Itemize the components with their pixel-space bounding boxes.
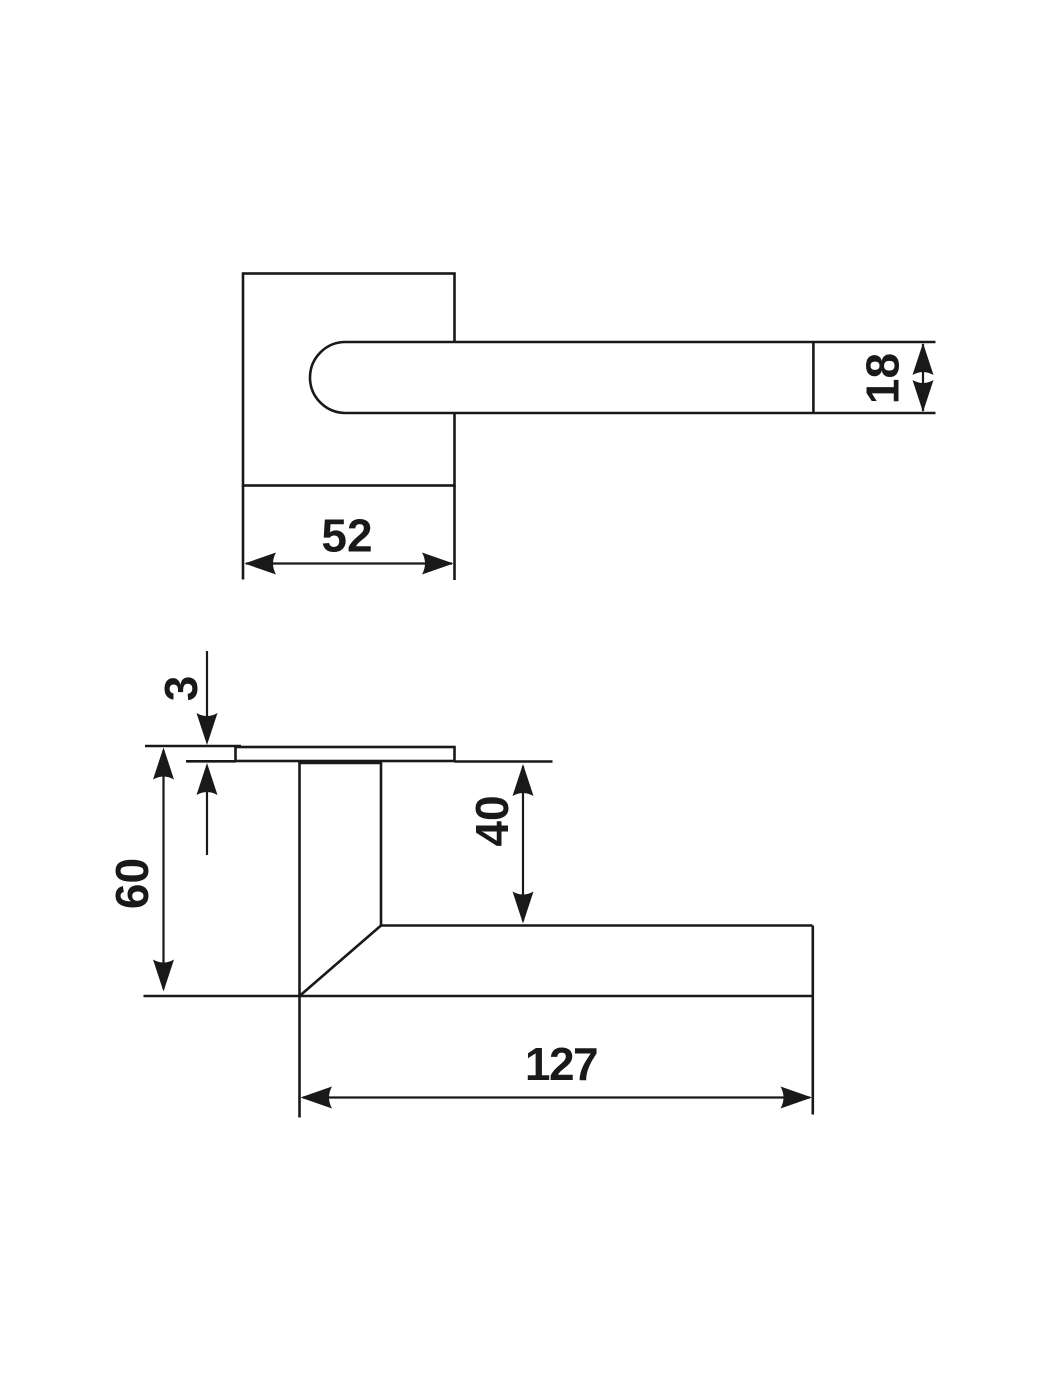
side view: bottom line (60 reference + lever bottom edge) (144, 995, 813, 998)
svg-text:3: 3 (155, 676, 207, 702)
rose plate square (top view) (243, 274, 455, 486)
svg-text:18: 18 (857, 353, 909, 404)
side view: top extension line (left of plate) (145, 745, 241, 748)
side view: extension line at plate bottom, left (186, 760, 236, 763)
dimension 60 arrow line (153, 748, 174, 992)
dimension 40 label (466, 795, 518, 846)
side view: lever top edge (381, 924, 813, 927)
side view: extension line at plate bottom, right (455, 760, 553, 763)
lever end cap line (top view) (812, 342, 815, 413)
dimension 52 label (321, 510, 372, 562)
dimension 127 label (525, 1038, 597, 1090)
svg-text:60: 60 (106, 858, 158, 909)
dimension 3 label (155, 676, 207, 702)
svg-text:52: 52 (321, 510, 372, 562)
svg-text:40: 40 (466, 795, 518, 846)
dimension 127 arrow line (301, 1087, 813, 1109)
dimension 18 arrow line (913, 343, 934, 412)
side view: bevel diagonal (300, 926, 382, 997)
dimension 3 leader (upper with down arrow) (197, 651, 218, 745)
dimension 3 leader (lower with up arrow) (197, 763, 218, 855)
dimension 40 arrow line (513, 764, 534, 924)
extension lines below plate for 52 (243, 486, 455, 581)
dimension 52 arrow line (245, 553, 454, 575)
dimension 18 label (857, 353, 909, 404)
side view: lever right edge + 127 right extension (811, 926, 814, 1115)
side view: neck top edge (300, 762, 382, 765)
dimension 60 label (106, 858, 158, 909)
side view: rose plate (thin) (236, 747, 455, 761)
lever handle bar (top view) (310, 342, 936, 413)
side view: neck left edge + 127 left extension (298, 761, 301, 1118)
side view: neck right edge (380, 761, 383, 926)
svg-text:127: 127 (525, 1038, 597, 1090)
